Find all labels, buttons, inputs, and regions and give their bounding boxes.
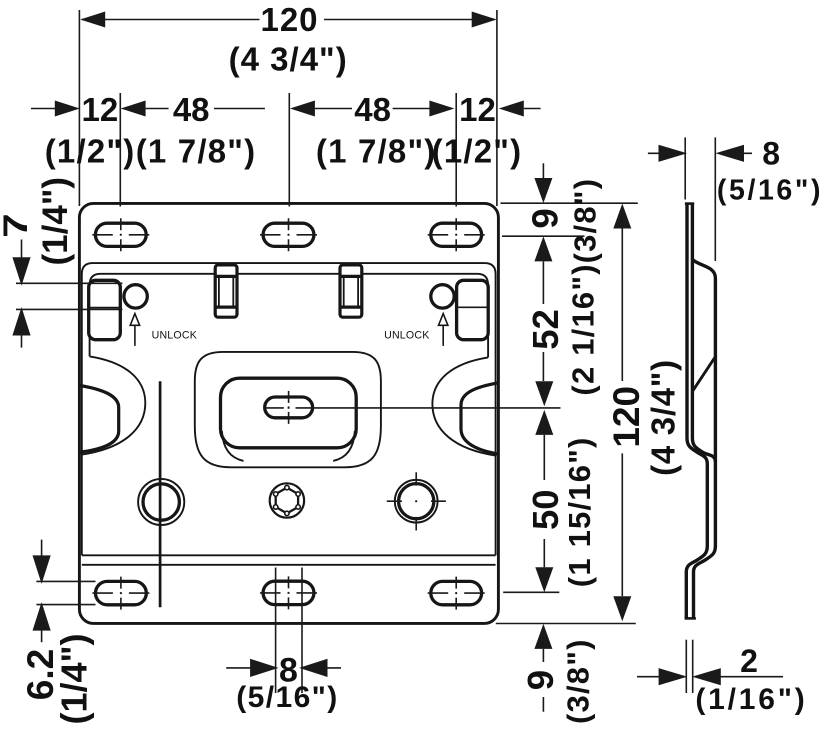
dim 7 up arrow — [14, 310, 30, 348]
side profile back line — [686, 204, 707, 619]
centerline center slot horizontal long — [265, 407, 561, 409]
svg-text:120: 120 — [260, 1, 318, 38]
svg-text:(1/2"): (1/2") — [45, 133, 136, 170]
lower-left circle inner — [143, 484, 179, 520]
svg-text:(2 1/16"): (2 1/16") — [566, 263, 601, 395]
svg-text:(5/16"): (5/16") — [717, 175, 823, 207]
slot bottom-middle — [263, 581, 314, 604]
center pocket inner — [221, 378, 357, 448]
lower-right circle outer — [395, 480, 438, 523]
dim 48-2 right arrow — [429, 101, 454, 117]
dim 2 side right arrow — [695, 669, 783, 684]
side profile bulge branch — [692, 260, 715, 463]
right latch — [457, 280, 489, 339]
dim 8 side right arrow — [718, 146, 752, 161]
centerline slot bottom-left — [92, 577, 149, 610]
ext line side-2 left — [685, 640, 687, 693]
ext line 8dim bottom right — [301, 568, 303, 694]
side profile front line — [692, 204, 715, 619]
centerline slot top-right — [428, 218, 485, 251]
right chain stem top — [542, 163, 544, 179]
svg-text:2: 2 — [740, 643, 758, 679]
dim 120 vert stems — [621, 229, 623, 597]
ext line side-8 right — [714, 137, 716, 261]
centerline slot bottom-middle — [260, 576, 317, 609]
svg-text:UNLOCK: UNLOCK — [152, 330, 197, 342]
lower-left circle outer — [138, 479, 184, 525]
centerline slot top-left — [92, 218, 149, 251]
ext line 48/12 right — [455, 93, 457, 207]
dim 48-1 left arrow — [121, 101, 146, 117]
screw symbol dots — [274, 485, 301, 515]
pocket right swoosh — [333, 431, 355, 461]
svg-text:(3/8"): (3/8") — [561, 638, 596, 724]
svg-text:9: 9 — [524, 208, 565, 228]
dim 12 right arrow — [499, 101, 524, 117]
dim 120 vert up arrow — [613, 204, 631, 229]
dim 8 bottom right arrow — [302, 660, 341, 676]
dim 48-2 left arrow — [290, 101, 315, 117]
svg-text:(4 3/4"): (4 3/4") — [644, 359, 681, 476]
slot top-left — [95, 223, 146, 246]
left latch — [89, 280, 121, 339]
dim 52 bottom down arrow — [535, 381, 553, 406]
side profile pocket diagonal — [693, 358, 715, 391]
dim 120 vert down arrow — [613, 596, 631, 621]
right unlock arrow — [442, 325, 444, 346]
dim 9 bottom stems — [542, 649, 544, 712]
dim 12 right tail — [524, 108, 541, 110]
svg-text:(1/16"): (1/16") — [695, 683, 807, 716]
svg-text:(1/4"): (1/4") — [36, 177, 75, 266]
slot top-right — [431, 223, 482, 246]
ext line side-8 left — [684, 137, 686, 199]
center slot — [265, 397, 313, 418]
dim 8 side left arrow — [648, 146, 684, 161]
dim 9 bottom up arrow — [534, 624, 552, 649]
ext line right chain top edge — [501, 202, 638, 204]
dim 48-1 lines — [146, 108, 265, 110]
body bottom step line A — [82, 554, 496, 556]
svg-text:48: 48 — [354, 91, 391, 128]
svg-text:9: 9 — [520, 670, 561, 690]
svg-text:(1/4"): (1/4") — [54, 633, 95, 724]
lower-right circle inner — [399, 484, 434, 519]
svg-text:(4 3/4"): (4 3/4") — [229, 41, 348, 78]
ext line 48/48 center — [288, 93, 290, 207]
right thick bracket (step edge) — [461, 383, 498, 454]
svg-text:52: 52 — [525, 309, 566, 350]
slot bottom-left — [96, 581, 147, 604]
ext line top-right 120 dim — [496, 10, 498, 206]
svg-text:7: 7 — [0, 213, 35, 238]
side profile top cap — [685, 202, 694, 205]
dim 8 bottom left arrow — [226, 660, 276, 676]
dim 50 bottom down arrow — [535, 567, 553, 592]
svg-text:(1 7/8"): (1 7/8") — [316, 133, 437, 170]
dim 12 left tail — [31, 108, 57, 110]
right unlock circle — [431, 285, 454, 308]
svg-text:50: 50 — [525, 489, 566, 530]
slot bottom-right — [431, 581, 482, 604]
svg-text:8: 8 — [762, 136, 780, 172]
screw symbol outer circle — [270, 483, 304, 517]
svg-text:48: 48 — [173, 91, 210, 128]
left latch divider — [89, 307, 120, 309]
ext line 8dim bottom left — [275, 568, 277, 694]
body bottom step line B — [82, 564, 496, 566]
centerline lower-right circle — [387, 472, 446, 530]
dim 52 top up arrow — [534, 236, 552, 261]
dim 6.2 up arrow — [34, 605, 50, 643]
side profile bottom cap — [685, 617, 696, 620]
svg-text:(5/16"): (5/16") — [236, 681, 338, 714]
top tab 1 — [215, 265, 237, 317]
dim 48-2 lines — [315, 108, 430, 110]
top tab 2 — [340, 265, 362, 317]
svg-text:UNLOCK: UNLOCK — [384, 330, 429, 342]
ext line right chain bottom slot center — [503, 591, 559, 593]
body inner outline B top — [90, 274, 489, 358]
ext line 6.2dim bottom — [36, 604, 95, 606]
ext line 7dim bottom — [16, 308, 122, 310]
dim 50 top up arrow — [535, 410, 553, 435]
centerline center slot vertical — [288, 391, 290, 424]
screw symbol hexagon — [276, 488, 298, 514]
dim 12 left arrow — [55, 101, 80, 117]
centerline slot bottom-right — [428, 577, 485, 610]
svg-text:(1 7/8"): (1 7/8") — [136, 133, 257, 170]
left unlock circle — [124, 285, 147, 308]
ext line 6.2dim top — [36, 580, 95, 582]
dim 2 side left arrow — [637, 669, 684, 684]
svg-text:120: 120 — [606, 386, 647, 448]
dim 120 top left arrow — [80, 12, 105, 28]
ext line top-left 120 dim — [78, 10, 80, 206]
slot top-middle — [263, 223, 314, 246]
ext line side-2 right — [692, 640, 694, 693]
dim 6.2 down arrow — [34, 540, 50, 582]
body raised outline A (bend start) — [82, 263, 496, 555]
right scallop cutout — [432, 357, 496, 455]
svg-text:(3/8"): (3/8") — [568, 178, 603, 264]
dim 50 stems — [543, 435, 545, 567]
pocket left swoosh — [222, 431, 244, 461]
dim 7 down arrow — [14, 240, 30, 284]
left unlock arrow — [134, 325, 136, 346]
svg-text:(1/2"): (1/2") — [432, 133, 523, 170]
plate outer outline — [79, 203, 498, 623]
crease line — [159, 381, 162, 607]
svg-text:12: 12 — [82, 91, 119, 128]
svg-text:12: 12 — [459, 91, 496, 128]
left scallop cutout — [81, 356, 145, 454]
left thick bracket (step edge) — [80, 385, 119, 452]
dim 120 top line — [82, 19, 495, 21]
ext line right chain bottom edge — [496, 623, 636, 625]
ext line right chain slot center — [502, 235, 585, 237]
ext line 7dim top — [16, 282, 122, 284]
dim 52 stems — [542, 261, 544, 381]
center pocket outer — [195, 352, 381, 467]
right latch divider — [457, 306, 488, 308]
ext line 12/48 left — [119, 93, 121, 207]
centerline slot top-middle — [260, 218, 317, 251]
svg-text:(1 15/16"): (1 15/16") — [562, 436, 597, 587]
dim 120 top right arrow — [472, 12, 497, 28]
dim 9 top down arrow — [534, 178, 552, 203]
